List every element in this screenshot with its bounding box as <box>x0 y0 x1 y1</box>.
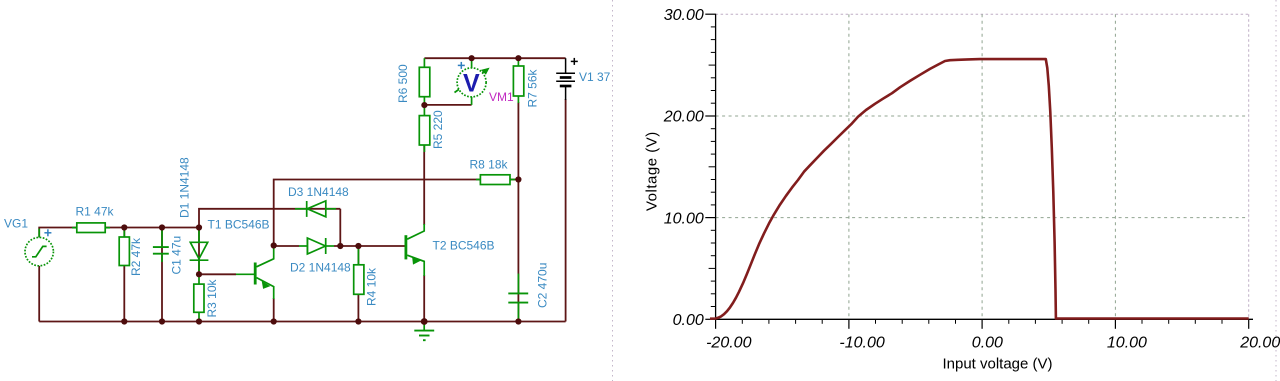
curve transfer characteristic <box>710 59 1249 319</box>
resistor R1 <box>72 223 110 233</box>
gridline 30V top dotted <box>716 13 1249 15</box>
svg-text:R7 56k: R7 56k <box>526 68 540 107</box>
svg-text:Input voltage (V): Input voltage (V) <box>942 356 1052 373</box>
node R1-R2 junction <box>121 224 127 230</box>
resistor R2 <box>119 229 129 266</box>
node R4 bottom junction <box>355 318 361 324</box>
svg-text:R8 18k: R8 18k <box>470 158 509 172</box>
resistor R6 <box>419 58 430 104</box>
wire T2 collector up to R5 <box>423 145 425 225</box>
transistor T2 <box>406 224 424 276</box>
wire T2 emitter down <box>423 275 425 322</box>
y axis <box>715 14 717 320</box>
svg-text:Voltage (V): Voltage (V) <box>644 131 661 211</box>
gridline 10V <box>716 217 1249 219</box>
svg-text:V: V <box>463 70 480 98</box>
wire top-left rail VG1 to D1 node <box>39 228 199 238</box>
svg-text:20.00: 20.00 <box>1239 334 1280 351</box>
gridline right edge 20V dotted <box>1248 14 1250 319</box>
wire R8 row from T1 collector column <box>274 180 519 246</box>
diode D1 <box>190 229 209 271</box>
node R6-VM1 top rail junction <box>469 55 475 61</box>
diode D3 <box>295 201 336 217</box>
node R8/R7/C2 junction <box>515 176 521 182</box>
voltage generator VG1 <box>25 237 53 265</box>
plus sign of V1 <box>571 58 578 65</box>
y axis ticks <box>705 14 715 319</box>
svg-text:10.00: 10.00 <box>664 210 704 227</box>
wire V1 column down to bottom rail <box>565 99 567 322</box>
svg-text:V1 37: V1 37 <box>579 70 611 84</box>
gridline 0V vertical <box>981 14 983 319</box>
wire R2 column <box>123 228 125 322</box>
wire C2 column <box>517 180 519 322</box>
voltmeter VM1 <box>455 58 490 105</box>
gridline +10V vertical <box>1114 14 1116 319</box>
svg-text:20.00: 20.00 <box>663 109 704 126</box>
wire R4 column <box>357 246 359 322</box>
node C2 bottom junction <box>515 318 521 324</box>
svg-text:D2 1N4148: D2 1N4148 <box>290 261 351 275</box>
svg-text:VG1: VG1 <box>4 217 28 231</box>
diode D2 <box>299 238 334 254</box>
plus sign of VG1 <box>44 229 51 236</box>
node C1 top junction <box>159 224 165 230</box>
capacitor C2 <box>508 274 528 320</box>
node D3-D2 junction <box>337 243 343 249</box>
node ground junction <box>421 318 428 325</box>
wire bottom ground rail <box>39 321 565 323</box>
wire D2 row <box>274 245 299 247</box>
wire T1 base <box>199 273 236 275</box>
wire R7 column down to R8 node <box>517 102 519 180</box>
axis value labels X <box>706 334 1280 351</box>
node D1-R3-T1 base junction <box>196 271 202 277</box>
wire T1 emitter down <box>273 298 275 322</box>
battery V1 <box>556 58 575 100</box>
capacitor C1 <box>153 229 169 262</box>
svg-text:0.00: 0.00 <box>972 334 1003 351</box>
axis value labels Y <box>663 7 704 329</box>
svg-text:-20.00: -20.00 <box>706 334 751 351</box>
transistor T1 <box>236 247 274 299</box>
node R7 top rail junction <box>515 55 521 61</box>
svg-text:R5 220: R5 220 <box>431 110 445 149</box>
resistor R8 <box>476 175 515 185</box>
svg-text:30.00: 30.00 <box>664 7 704 24</box>
gridline 20V <box>716 115 1249 117</box>
svg-text:C2 470u: C2 470u <box>536 263 550 308</box>
resistor R7 <box>513 58 523 103</box>
svg-text:C1 47u: C1 47u <box>170 236 184 275</box>
svg-text:T1 BC546B: T1 BC546B <box>208 218 270 232</box>
resistor R5 <box>419 106 430 152</box>
node T1 emitter bottom junction <box>271 318 277 324</box>
svg-text:D1 1N4148: D1 1N4148 <box>178 157 192 218</box>
wire VM1 bottom to R5/R6 node <box>424 104 471 106</box>
svg-text:-10.00: -10.00 <box>839 334 884 351</box>
chart window left dotted border <box>612 0 614 381</box>
svg-text:D3 1N4148: D3 1N4148 <box>288 185 349 199</box>
ground <box>414 322 434 340</box>
node D1 top junction <box>196 224 202 230</box>
svg-text:R6 500: R6 500 <box>396 64 410 103</box>
node R4 top junction <box>355 243 361 249</box>
wire top supply rail <box>424 57 565 59</box>
svg-text:T2 BC546B: T2 BC546B <box>433 239 495 253</box>
svg-text:R1 47k: R1 47k <box>76 205 115 219</box>
node T1 collector junction <box>271 242 277 248</box>
wire D2 to T2 base <box>334 245 405 247</box>
node R2 bottom junction <box>121 318 127 324</box>
node C1 bottom junction <box>159 318 165 324</box>
wire C1 column <box>161 228 163 322</box>
x axis ticks <box>716 319 1249 329</box>
svg-text:0.00: 0.00 <box>673 312 704 329</box>
svg-text:R4 10k: R4 10k <box>365 267 379 306</box>
resistor R3 <box>194 276 204 320</box>
wire D3 corner down to D2 row <box>339 209 341 246</box>
svg-text:10.00: 10.00 <box>1107 334 1147 351</box>
wire D3 row from D1 node <box>199 209 340 228</box>
wire VG1 bottom lead <box>38 266 40 322</box>
svg-text:R3 10k: R3 10k <box>205 278 219 317</box>
node R3 bottom junction <box>196 318 202 324</box>
svg-text:R2 47k: R2 47k <box>129 237 143 276</box>
plus sign of VM1 <box>458 62 465 69</box>
x axis <box>716 318 1253 320</box>
gridline -10V vertical <box>848 14 850 319</box>
wire D1 column <box>198 228 200 275</box>
chart window right dotted border <box>1275 0 1277 381</box>
node R6/R5/VM1 junction <box>421 102 427 108</box>
svg-text:VM1: VM1 <box>489 90 514 104</box>
resistor R4 <box>354 248 364 294</box>
